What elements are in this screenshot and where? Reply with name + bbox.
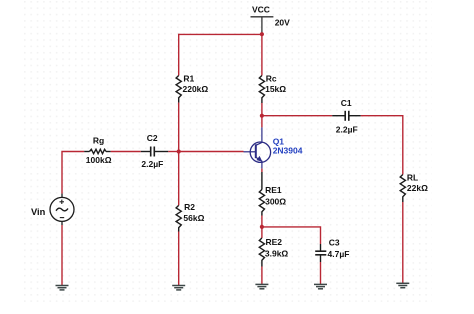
junction emitter node [260,225,264,229]
resistor RL 22k [400,173,428,203]
wire rail to Rc top [261,34,263,75]
resistor RE1 300 [259,172,286,216]
wire emitter to RE1 [261,169,263,172]
wire rail to R1 top [178,34,180,76]
wire RE1 to emitter junction [261,216,263,227]
plus mark [60,201,65,203]
svg-text:2.2µF: 2.2µF [141,159,163,169]
svg-text:RE1: RE1 [265,185,282,195]
wire emitter junction to C3 [262,227,321,244]
emitter arrow [256,156,262,162]
resistor R1 220k [176,74,208,103]
resistor Rc 15k [259,74,286,103]
VCC power symbol [251,4,291,34]
svg-text:56kΩ: 56kΩ [183,213,204,223]
capacitor C3 4.7uF [315,238,349,262]
svg-text:20V: 20V [275,17,290,27]
wire base junction to R2 [178,152,180,206]
svg-text:3.9kΩ: 3.9kΩ [265,248,289,258]
svg-text:15kΩ: 15kΩ [265,84,286,94]
svg-text:220kΩ: 220kΩ [183,84,209,94]
svg-text:Rc: Rc [266,74,277,84]
junction collector node [260,114,264,118]
svg-text:R1: R1 [183,74,194,84]
svg-text:100kΩ: 100kΩ [86,155,112,165]
wire RE2 to ground [261,267,263,285]
ground R2 [172,286,185,290]
svg-text:2.2µF: 2.2µF [336,124,358,134]
svg-text:300Ω: 300Ω [265,196,286,206]
wire Vin to ground [61,225,63,286]
emitter pin down [261,161,263,169]
resistor R2 56k [176,202,204,232]
wire R1 to base junction [178,103,180,152]
base lead blue stub [244,151,256,153]
resistor Rg 100k [84,136,112,166]
junction base node [177,149,181,153]
resistor RE2 3.9k [259,237,288,267]
ground RE2 [255,284,268,288]
ground Vin [56,286,69,290]
wire collector junction to C1 [262,115,332,117]
svg-text:C1: C1 [341,98,352,108]
wire C3 to ground [320,262,322,284]
collector diagonal [256,142,262,145]
svg-text:RL: RL [407,173,418,183]
svg-text:2N3904: 2N3904 [273,145,303,155]
wire C2 to base junction [168,151,178,153]
svg-text:R2: R2 [184,202,195,212]
wire base junction to transistor base [179,151,244,153]
svg-text:4.7µF: 4.7µF [328,249,350,259]
wire Rc to collector junction [261,103,263,116]
svg-text:22kΩ: 22kΩ [407,183,428,193]
svg-text:C3: C3 [329,238,340,248]
wire RL to ground [402,202,404,283]
wire C1 to RL corner [361,116,403,175]
svg-text:VCC: VCC [252,4,270,14]
minus mark [60,217,64,219]
sine wave [56,208,68,211]
wire top rail horizontal [179,33,262,35]
svg-text:C2: C2 [147,133,158,143]
wire collector junction to transistor [261,116,263,128]
wire Vin corner to Rg [62,152,84,194]
wire R2 to ground [178,232,180,286]
source Vin AC [31,194,74,225]
svg-text:RE2: RE2 [266,237,283,247]
wire junction to RE2 [261,227,263,238]
svg-text:Rg: Rg [93,136,104,146]
capacitor C2 2.2uF [141,133,169,169]
base bar [255,144,257,158]
emitter diagonal [256,157,262,161]
junction VCC rail [260,32,264,36]
wire Rg to C2 [111,151,141,153]
transistor Q1 2N3904 [244,127,303,168]
ground C3 [314,284,327,288]
svg-text:Vin: Vin [31,207,46,217]
ground RL [396,283,409,287]
collector pin up [261,127,263,143]
capacitor C1 2.2uF [332,98,361,135]
